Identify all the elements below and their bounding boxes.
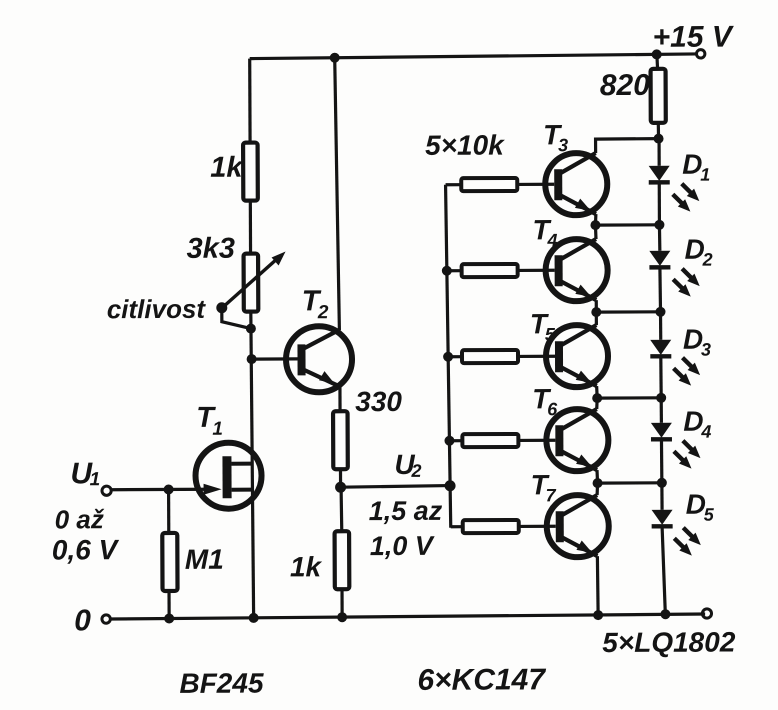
wire M1 to ground rail xyxy=(167,590,170,618)
label D3 xyxy=(683,324,711,360)
svg-text:0 až: 0 až xyxy=(55,504,105,534)
node LED chain ground xyxy=(660,609,670,619)
LED D2 xyxy=(649,225,700,312)
svg-text:2: 2 xyxy=(317,302,329,323)
resistor R2 3k3 potentiometer xyxy=(223,251,286,311)
label T1 xyxy=(196,402,223,440)
wiper wire of R2 xyxy=(216,302,251,329)
svg-text:330: 330 xyxy=(355,386,402,417)
resistor R1 1k xyxy=(243,143,258,201)
svg-text:1: 1 xyxy=(212,419,223,440)
resistor R8 10k (T5 base) xyxy=(448,350,555,363)
node n4 left xyxy=(592,393,602,403)
LED D1 xyxy=(649,138,700,224)
label D5 xyxy=(686,489,715,525)
label T3 xyxy=(543,119,568,155)
resistor M1 xyxy=(162,533,177,591)
value label 1k (R4) xyxy=(290,551,323,582)
label 1,5 az xyxy=(369,496,443,526)
transistor T3 xyxy=(545,153,607,215)
wire node U2 to bus xyxy=(341,486,449,488)
wire T2 base xyxy=(252,357,298,360)
label 5x10k xyxy=(425,129,505,160)
node bus tap T5 xyxy=(443,352,453,362)
value label 820 xyxy=(600,69,651,102)
node U2 left xyxy=(335,482,346,493)
wire top supply rail xyxy=(250,54,696,59)
node bus tap T4 xyxy=(442,266,452,276)
svg-text:0: 0 xyxy=(74,604,91,637)
svg-text:7: 7 xyxy=(546,485,557,505)
value label 1k (R1) xyxy=(210,152,244,184)
svg-text:4: 4 xyxy=(700,422,711,442)
wire T2 collector to top rail xyxy=(335,58,340,331)
svg-text:1k: 1k xyxy=(210,152,244,184)
LED D4 xyxy=(651,398,701,483)
label T5 xyxy=(530,308,556,344)
svg-text:citlivost: citlivost xyxy=(107,294,207,324)
wire T7 emitter to ground rail xyxy=(596,556,600,615)
svg-text:5×10k: 5×10k xyxy=(425,129,505,160)
svg-text:3k3: 3k3 xyxy=(186,233,235,265)
svg-text:M1: M1 xyxy=(185,544,224,575)
svg-text:1: 1 xyxy=(700,165,710,185)
node T1 source ground xyxy=(249,613,259,623)
node n4 right xyxy=(656,393,666,403)
+15 V label xyxy=(653,20,735,53)
U1 input terminal xyxy=(102,486,111,495)
LED D3 xyxy=(650,312,700,398)
label T2 xyxy=(302,285,329,323)
svg-text:3: 3 xyxy=(701,340,711,360)
transistor T2 xyxy=(286,326,352,392)
resistor R9 10k (T6 base) xyxy=(449,434,555,447)
label T4 xyxy=(532,214,557,250)
label T7 xyxy=(531,469,557,505)
resistor R10 10k (T7 base) xyxy=(451,520,556,533)
value label 330 xyxy=(355,386,402,417)
wire T4 collector to node n2 xyxy=(594,225,598,239)
svg-text:1,5 az: 1,5 az xyxy=(369,496,443,526)
svg-text:1,0 V: 1,0 V xyxy=(370,531,435,561)
wire R1 to R2 xyxy=(249,201,252,254)
label D2 xyxy=(684,234,712,270)
resistor R5 820 xyxy=(651,69,666,123)
wire R3 to node U2 xyxy=(339,469,342,487)
value label 3k3 xyxy=(186,233,235,265)
svg-text:6: 6 xyxy=(547,399,558,419)
resistor R6 10k (T3 base) xyxy=(446,178,555,191)
wire 820 top xyxy=(655,54,659,68)
wire T3 emitter to node n2 xyxy=(595,214,659,225)
wire T3 collector to D1 anode node xyxy=(596,139,659,153)
svg-text:1: 1 xyxy=(89,469,100,490)
label M1 xyxy=(185,544,224,575)
transistor T4 xyxy=(545,239,607,301)
transistor T7 xyxy=(547,495,609,557)
wire T7 collector to node n5 xyxy=(595,483,599,495)
node top rail / 820 junction xyxy=(652,49,662,59)
wire U2 node to R4 xyxy=(339,487,343,531)
node n3 left xyxy=(591,307,601,317)
label 0 az xyxy=(55,504,105,534)
resistor R7 10k (T4 base) xyxy=(447,264,555,277)
label 1,0 V xyxy=(370,531,435,561)
wire 820 bottom to D1 node xyxy=(657,123,660,139)
label 6xKC147 xyxy=(417,663,546,697)
wire T6 emitter to node n5 xyxy=(597,470,662,483)
svg-text:2: 2 xyxy=(410,461,421,481)
label U2 xyxy=(394,449,421,481)
label BF245 xyxy=(179,668,264,699)
ground rail 0 xyxy=(111,614,706,619)
wire U1 to T1 gate xyxy=(110,488,210,492)
wire base bus xyxy=(446,185,451,528)
node D1 anode xyxy=(654,134,664,144)
transistor T5 xyxy=(546,325,608,387)
svg-text:820: 820 xyxy=(600,69,651,102)
node T7 emitter ground xyxy=(593,610,603,620)
0 terminal left xyxy=(102,615,110,623)
svg-text:5×LQ1802: 5×LQ1802 xyxy=(602,626,736,658)
transistor T1 (JFET) xyxy=(195,443,261,509)
wire R4 to ground rail xyxy=(340,589,343,617)
label 5xLQ1802 xyxy=(602,626,736,658)
wire T6 collector to node n4 xyxy=(595,398,599,409)
+15 V terminal xyxy=(696,50,704,58)
node bus tap T6 xyxy=(444,436,454,446)
wire T5 emitter to node n4 xyxy=(597,386,662,398)
svg-text:BF245: BF245 xyxy=(179,668,264,699)
label D4 xyxy=(683,406,711,442)
wire T4 emitter to node n3 xyxy=(596,300,660,312)
svg-text:0,6 V: 0,6 V xyxy=(52,534,120,565)
label D1 xyxy=(682,149,710,185)
node n3 right xyxy=(655,307,665,317)
wire R2 bottom down through T1 to ground rail xyxy=(251,312,254,618)
node top rail / T2 collector junction xyxy=(330,53,340,63)
resistor R3 330 xyxy=(333,411,348,469)
LED D5 xyxy=(651,483,701,615)
svg-text:4: 4 xyxy=(546,230,557,250)
node n5 right xyxy=(657,478,667,488)
node bus tap U2 xyxy=(445,480,456,491)
node T2 base tap xyxy=(247,354,257,364)
svg-text:1k: 1k xyxy=(290,551,323,582)
label 0,6 V xyxy=(52,534,120,565)
wire from top rail down to R1 xyxy=(248,59,252,143)
node n5 left xyxy=(593,478,603,488)
citlivost label xyxy=(107,294,207,324)
node R4 ground xyxy=(337,612,347,622)
svg-text:2: 2 xyxy=(702,250,713,270)
label T6 xyxy=(532,383,558,419)
label U1 xyxy=(70,457,100,490)
svg-text:5: 5 xyxy=(545,324,556,344)
svg-text:+15 V: +15 V xyxy=(653,20,735,53)
resistor R4 1k xyxy=(335,531,350,589)
node n2 right xyxy=(654,220,664,230)
label 0 xyxy=(74,604,91,637)
node R2 wiper junction xyxy=(246,324,256,334)
node M1 top junction xyxy=(164,484,174,494)
svg-text:5: 5 xyxy=(704,505,715,525)
svg-text:3: 3 xyxy=(558,135,568,155)
ground rail right terminal xyxy=(702,609,711,618)
wire T2 emitter to R3 xyxy=(338,386,341,411)
svg-text:6×KC147: 6×KC147 xyxy=(417,663,546,697)
wire M1 top xyxy=(167,489,170,531)
node M1 ground xyxy=(164,613,174,623)
node n2 left xyxy=(590,220,600,230)
wire T5 collector to node n3 xyxy=(595,312,598,325)
transistor T6 xyxy=(546,409,608,471)
